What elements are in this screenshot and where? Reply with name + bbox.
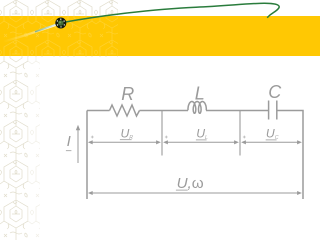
capacitor C left plate	[268, 101, 270, 120]
resistor R	[110, 105, 140, 116]
plus mark at U_R arrow	[91, 136, 94, 139]
svg-text:R: R	[129, 135, 133, 141]
plus mark at U_L arrow	[165, 136, 168, 139]
yellow header band	[0, 16, 320, 56]
wire top-left segment	[87, 110, 110, 112]
svg-text:L: L	[195, 83, 205, 103]
label U_C	[266, 127, 279, 142]
current arrow I	[76, 125, 80, 163]
wire L to C	[206, 110, 269, 112]
svg-text:U: U	[121, 127, 130, 141]
voltage arrow U omega (total)	[88, 191, 302, 195]
label I	[66, 133, 72, 151]
svg-text:U: U	[266, 127, 275, 141]
wire C to right corner	[277, 111, 303, 200]
voltage arrow U_C	[241, 140, 302, 144]
inductor L	[188, 102, 206, 114]
svg-text:U,ω: U,ω	[177, 175, 204, 192]
wire R to L	[140, 110, 189, 112]
svg-text:C: C	[268, 82, 282, 102]
white streak	[3, 25, 56, 42]
svg-text:L: L	[205, 135, 208, 141]
label U_L	[196, 127, 208, 142]
svg-text:U: U	[196, 127, 205, 141]
voltage arrow U_R	[88, 140, 161, 144]
label U,omega	[176, 175, 204, 192]
green swoosh	[35, 3, 279, 32]
label U_R	[120, 127, 133, 142]
svg-text:I: I	[67, 133, 71, 150]
ornament wheel	[55, 18, 66, 29]
voltage arrow U_L	[163, 140, 239, 144]
svg-text:C: C	[275, 135, 279, 141]
capacitor C right plate	[276, 101, 278, 120]
plus mark at U_C arrow	[243, 136, 246, 139]
node tick between R and L	[161, 111, 163, 156]
node tick between L and C	[239, 111, 241, 156]
svg-text:R: R	[121, 84, 134, 104]
wire left vertical	[86, 111, 88, 200]
